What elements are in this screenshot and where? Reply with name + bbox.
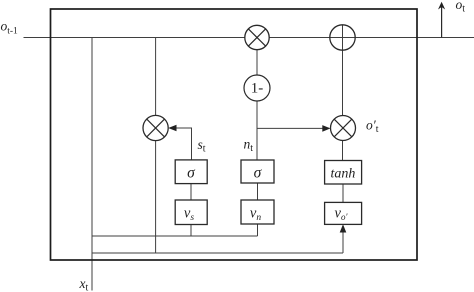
outer box (cell boundary) <box>51 9 418 260</box>
adder node (plus circle) <box>330 25 355 50</box>
wire s_t from sigma box up and left into left multiplier (arrow) <box>170 128 192 160</box>
wire arrow from bus 2 up into v_o' box <box>342 226 344 254</box>
v_n box <box>241 200 274 224</box>
wire from 1- branch right into o' multiplier (arrow) <box>257 127 329 129</box>
svg-text:tanh: tanh <box>331 167 356 182</box>
wire sigma1 to v_s connector <box>190 184 192 200</box>
sigma box (n gate) U-sigma2 <box>241 160 274 183</box>
wire vertical through top multiplier and 1- node down to sigma n box <box>256 38 258 161</box>
svg-text:1-: 1- <box>251 81 264 97</box>
svg-text:σ: σ <box>187 165 196 182</box>
wire sigma2 to v_n connector <box>257 183 259 200</box>
wire v_n connector down to bus 1 <box>257 224 259 236</box>
multiply node o' (right) <box>331 116 356 141</box>
wire v_s connector down to bus 1 <box>190 225 192 237</box>
v_s box <box>175 200 207 225</box>
wire from left multiplier down to bottom bus 2 <box>155 141 157 253</box>
wire vertical x_t input line at x=92 <box>91 38 93 291</box>
wire tanh to v_o' connector <box>342 184 344 202</box>
wire vertical through adder down to tanh box <box>342 25 344 161</box>
svg-text:σ: σ <box>254 165 263 182</box>
wire bottom bus 2 (x_t to v_o') <box>92 252 343 254</box>
sigma box (s gate) U-sigma1 <box>175 160 207 184</box>
output arrow o_t at top right <box>441 4 443 38</box>
v_o' box <box>325 202 362 224</box>
multiply node (top, forget gate) <box>245 25 269 49</box>
wire bottom bus 1 (x_t to v_s and v_n) <box>92 235 258 237</box>
tanh box <box>325 161 362 185</box>
1- node circle <box>244 75 270 101</box>
wire o_{t-1} main horizontal line <box>24 37 474 39</box>
wire from main line down to left multiplier <box>155 38 157 116</box>
multiply node (left, s gate) <box>143 115 168 140</box>
